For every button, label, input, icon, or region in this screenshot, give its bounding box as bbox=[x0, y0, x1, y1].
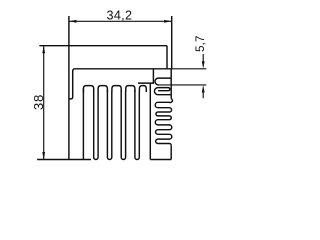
fin F2 with rounded tip bbox=[107, 90, 111, 160]
right block left edge and bottom edge bbox=[150, 83, 171, 159]
heatsink profile top edge with extension line for dim 38 bbox=[39, 45, 167, 47]
svg-text:38: 38 bbox=[31, 94, 46, 110]
right extension line for dim 34,2 bbox=[171, 16, 173, 69]
arrowhead 38 top bbox=[42, 46, 45, 54]
chamber slot with rounded left cap bbox=[155, 78, 171, 85]
slot cap arch A1 bbox=[83, 86, 93, 93]
C-shaped left fold cap bbox=[154, 88, 171, 95]
svg-text:34,2: 34,2 bbox=[107, 8, 133, 22]
slot cap arch A2 bbox=[98, 86, 107, 92]
arrowhead 5,7 lower bbox=[202, 85, 205, 93]
fin F3 with rounded tip bbox=[121, 90, 125, 160]
tongue slot with rounded right cap bbox=[158, 88, 170, 91]
bottom edge of left block with extension line for dim 38 bbox=[37, 159, 91, 161]
ledge line and step up to ceiling bbox=[138, 69, 153, 83]
cavity ceiling line (base underside), continues as extension line for dim 5,7 bbox=[74, 68, 171, 70]
arrowhead 38 bottom bbox=[42, 152, 45, 160]
slot cap arch A4 bbox=[126, 86, 135, 92]
serpentine meander folds bbox=[155, 99, 172, 146]
right outer edge lower segment bbox=[170, 145, 172, 159]
dimension line 38 bbox=[43, 46, 45, 160]
arrow shaft 5,7 lower bbox=[202, 92, 204, 99]
base plate right face bbox=[166, 46, 168, 69]
heatsink profile left outer edge with extension line for dim 34,2 bbox=[68, 16, 70, 160]
right outer edge upper segment bbox=[170, 69, 172, 99]
slot cap arch A5 bbox=[139, 86, 146, 92]
arrowhead 34,2 left bbox=[69, 20, 77, 23]
dimension line 34,2 bbox=[69, 20, 172, 22]
arrowhead 5,7 upper bbox=[202, 61, 205, 69]
extension lines for dim 5,7 bbox=[157, 69, 206, 85]
left wall inner face with corner radius and lower jog bbox=[69, 69, 74, 99]
arrow shaft 5,7 upper bbox=[202, 54, 204, 63]
arrowhead 34,2 right bbox=[164, 20, 172, 23]
fin F4 with rounded tip bbox=[135, 90, 139, 160]
left block right edge bbox=[82, 88, 84, 159]
fin F1 with rounded tip bbox=[94, 90, 98, 160]
slot cap arch A3 bbox=[112, 86, 121, 92]
svg-text:5,7: 5,7 bbox=[193, 36, 207, 52]
